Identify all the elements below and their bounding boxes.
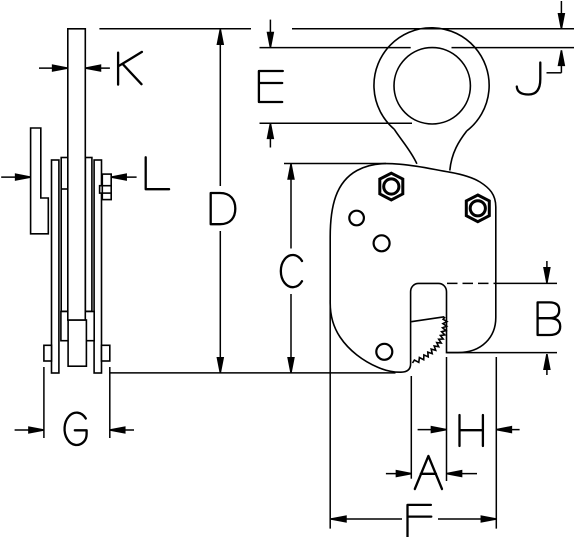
- label C: [281, 255, 302, 287]
- side-view bolt head: [102, 174, 111, 200]
- D dimension line: [219, 29, 221, 186]
- cam top edge: [411, 317, 444, 322]
- label E: [259, 71, 283, 102]
- B top hidden dashed line: [447, 282, 492, 284]
- label L: [146, 157, 169, 189]
- hex nut left: [380, 173, 403, 200]
- rivet hole middle: [374, 235, 390, 251]
- K dimension arrows: [39, 67, 68, 69]
- clamp body outline: [330, 164, 496, 373]
- side-view inner plate right: [85, 158, 92, 312]
- side-view lower pad column: [68, 320, 86, 366]
- side-view inner plate left pin line: [61, 188, 68, 190]
- lifting eye inner hole: [394, 48, 470, 124]
- side-view main jaw bar (K bar): [68, 29, 86, 320]
- F/H extension right: [495, 357, 497, 529]
- label H: [460, 415, 483, 446]
- side-view outer plate left: [52, 160, 59, 373]
- H dimension arrows: [418, 429, 447, 431]
- top extension line (D top / J top): [99, 28, 251, 30]
- label D: [211, 193, 236, 224]
- lifting eye outer ring: [374, 28, 489, 131]
- cam serrated gripping edge: [413, 317, 448, 363]
- label J: [517, 63, 541, 95]
- side-view outer plate right: [94, 160, 101, 373]
- eye shank right weld curve: [450, 131, 467, 171]
- A/H extension (slot right): [446, 357, 448, 481]
- label B: [538, 302, 561, 335]
- side-view lower pad block: [61, 312, 94, 341]
- E bottom line (inner circle bottom tangent): [260, 122, 413, 124]
- A extension left (slot left): [410, 376, 412, 479]
- F extension left: [329, 300, 331, 529]
- label A: [415, 456, 442, 489]
- side-view foot right: [102, 345, 110, 361]
- C dimension line: [290, 164, 292, 249]
- B bottom extension (jaw face): [447, 352, 558, 354]
- rivet hole lower: [376, 344, 392, 360]
- F dimension line: [331, 518, 402, 520]
- side-view bolt washer tab: [100, 186, 103, 193]
- G extension left: [43, 367, 45, 438]
- eye shank left weld curve: [394, 129, 417, 164]
- L dimension arrows: [1, 176, 30, 178]
- A dimension arrows: [386, 473, 412, 475]
- label F: [408, 505, 432, 537]
- G extension right: [109, 367, 111, 438]
- B top solid extension: [494, 282, 558, 284]
- G dimension arrows: [15, 429, 44, 431]
- hex nut right: [466, 195, 489, 222]
- side-view bolt head facet lines: [102, 185, 111, 187]
- B dimension arrows: [546, 261, 548, 283]
- side-view inner plate left: [61, 158, 68, 312]
- E dimension arrows: [269, 20, 271, 48]
- baseline extension (D/C bottom): [110, 372, 396, 374]
- side-view foot left: [44, 345, 52, 361]
- label G: [65, 413, 87, 445]
- label K: [118, 52, 142, 85]
- rivet hole upper: [349, 211, 364, 226]
- side-view cam lever L-plate: [31, 128, 49, 234]
- C top extension line: [284, 163, 386, 165]
- J dimension arrows + leader: [560, 1, 562, 29]
- E/J top line (inner circle top tangent): [260, 47, 411, 49]
